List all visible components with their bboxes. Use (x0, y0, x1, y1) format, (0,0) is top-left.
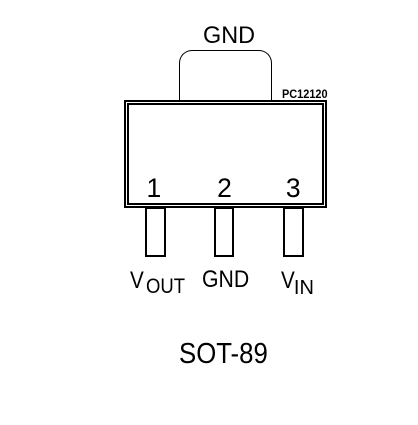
label OUT subscript (146, 276, 185, 297)
label IN subscript (294, 278, 314, 298)
label PC12120 (282, 88, 328, 100)
package body inner rectangle (127, 103, 324, 205)
lead pin 3 (283, 207, 304, 257)
label V (of VIN) (281, 269, 295, 293)
lead pin 1 (145, 207, 166, 257)
pin number 3 (286, 175, 301, 202)
label GND (pin 2) (202, 268, 249, 292)
lead pin 2 (214, 207, 235, 257)
label V (of VOUT) (130, 269, 144, 293)
tab (heatsink tab outline) (179, 50, 271, 102)
package body outer rectangle (124, 100, 327, 208)
label SOT-89 (179, 340, 268, 369)
pin number 2 (217, 175, 232, 202)
pin number 1 (147, 175, 162, 202)
label GND (tab, top) (203, 24, 255, 49)
